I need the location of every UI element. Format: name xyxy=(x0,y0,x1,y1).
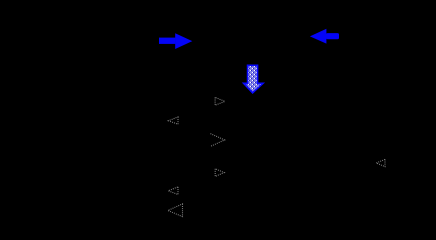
arrowhead A5 (faint, pointing left) xyxy=(168,187,178,195)
current arrow I3 (blue outline, dithered light fill, pointing down) xyxy=(244,65,263,93)
current arrow I1 (blue, pointing right) xyxy=(159,33,192,49)
arrowhead A3 (faint large, pointing right) xyxy=(210,134,224,147)
arrowhead A7 (faint, pointing left) xyxy=(376,159,385,166)
arrowhead A1 (faint, pointing right) xyxy=(215,97,225,105)
arrowhead A4 (faint, pointing right) xyxy=(215,169,224,177)
arrowhead A2 (faint, pointing left) xyxy=(168,117,178,124)
arrowhead A6 (faint large, pointing left) xyxy=(168,204,183,217)
current arrow I2 (blue, pointing left) xyxy=(310,29,339,44)
